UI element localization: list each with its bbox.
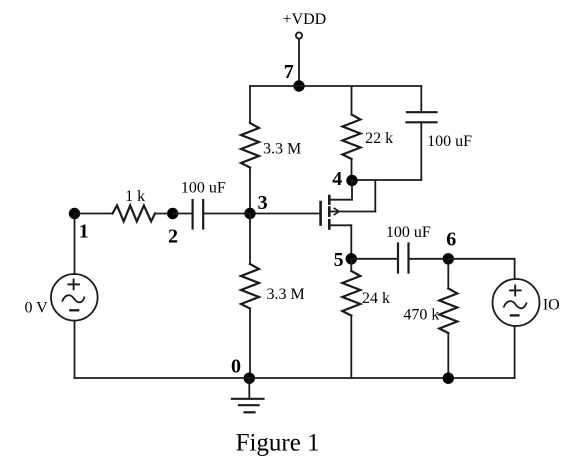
capacitor 100 uF (output coupling) bbox=[351, 244, 448, 273]
wire IO to bottom rail bbox=[514, 326, 516, 378]
wire node 4 rail bbox=[352, 179, 421, 181]
V1 minus sign bbox=[70, 309, 78, 311]
capacitor 100 uF (drain bypass) bbox=[407, 86, 437, 180]
svg-text:100 uF: 100 uF bbox=[386, 224, 431, 241]
M1 source lead wire bbox=[329, 225, 351, 258]
node 7 junction dot bbox=[293, 80, 304, 91]
svg-text:0 V: 0 V bbox=[24, 299, 48, 316]
M1 body lead wire bbox=[329, 211, 375, 213]
resistor 24 k (source) bbox=[342, 259, 360, 378]
IO circle bbox=[493, 279, 540, 326]
svg-text:24 k: 24 k bbox=[362, 290, 390, 307]
VDD terminal bbox=[296, 32, 302, 38]
M1 channel segments bbox=[328, 196, 331, 229]
node 0 junction dot bbox=[244, 373, 255, 384]
svg-text:1 k: 1 k bbox=[125, 188, 145, 205]
node 2 junction dot bbox=[167, 208, 178, 219]
resistor 1 k bbox=[75, 205, 173, 221]
svg-text:22 k: 22 k bbox=[365, 130, 393, 147]
svg-text:Figure 1: Figure 1 bbox=[236, 430, 320, 457]
resistor 470 k (load) bbox=[439, 259, 457, 378]
ground bars bbox=[232, 399, 264, 413]
wire node 0 to ground bbox=[248, 378, 250, 399]
node 6 junction dot bbox=[443, 253, 454, 264]
wire node 1 to V1 bbox=[74, 214, 76, 275]
IO plus sign bbox=[510, 286, 521, 296]
node junction dot bottom right bbox=[443, 373, 454, 384]
V1 sine wave bbox=[62, 295, 84, 302]
svg-text:4: 4 bbox=[332, 168, 342, 190]
wire top rail bbox=[250, 85, 421, 87]
svg-text:3: 3 bbox=[258, 192, 268, 214]
wire bottom rail bbox=[75, 377, 515, 379]
resistor 3.3 M (lower, gate bias) bbox=[241, 214, 259, 379]
svg-text:0: 0 bbox=[231, 355, 241, 377]
svg-text:7: 7 bbox=[284, 61, 294, 83]
svg-text:3.3 M: 3.3 M bbox=[267, 286, 305, 303]
M1 gate bar bbox=[319, 202, 322, 225]
source IO bbox=[493, 279, 540, 378]
M1 drain lead wire bbox=[329, 181, 352, 200]
svg-text:IO: IO bbox=[543, 297, 560, 314]
wire body to node 4 bbox=[374, 180, 376, 212]
node 4 junction dot bbox=[346, 175, 357, 186]
transistor M1 (MOSFET) bbox=[321, 181, 376, 259]
node 5 junction dot bbox=[346, 253, 357, 264]
wire node 6 to IO source bbox=[448, 259, 514, 279]
node 1 junction dot bbox=[69, 208, 80, 219]
svg-text:1: 1 bbox=[79, 220, 89, 242]
wire VDD to node 7 bbox=[298, 39, 300, 86]
wire gate from node 3 bbox=[250, 213, 321, 215]
voltage source V1 (0 V) bbox=[51, 214, 98, 379]
resistor 3.3 M (upper, gate bias) bbox=[241, 86, 259, 214]
svg-text:6: 6 bbox=[446, 228, 456, 250]
resistor 22 k (drain) bbox=[343, 86, 361, 180]
IO minus sign bbox=[511, 314, 519, 316]
svg-text:3.3 M: 3.3 M bbox=[263, 140, 301, 157]
svg-text:100 uF: 100 uF bbox=[427, 133, 472, 150]
svg-text:5: 5 bbox=[334, 249, 344, 271]
svg-text:2: 2 bbox=[168, 226, 178, 248]
svg-text:470 k: 470 k bbox=[403, 307, 439, 324]
svg-text:100 uF: 100 uF bbox=[181, 179, 226, 196]
M1 body arrow bbox=[334, 208, 339, 214]
ground symbol bbox=[232, 378, 264, 412]
capacitor 100 uF (input coupling) bbox=[173, 200, 250, 229]
V1 circle bbox=[51, 274, 98, 321]
V1 plus sign bbox=[68, 280, 79, 290]
IO sine wave bbox=[504, 301, 527, 308]
svg-text:+VDD: +VDD bbox=[283, 11, 327, 28]
wire V1 to bottom rail bbox=[74, 321, 76, 378]
node 3 junction dot bbox=[244, 208, 255, 219]
